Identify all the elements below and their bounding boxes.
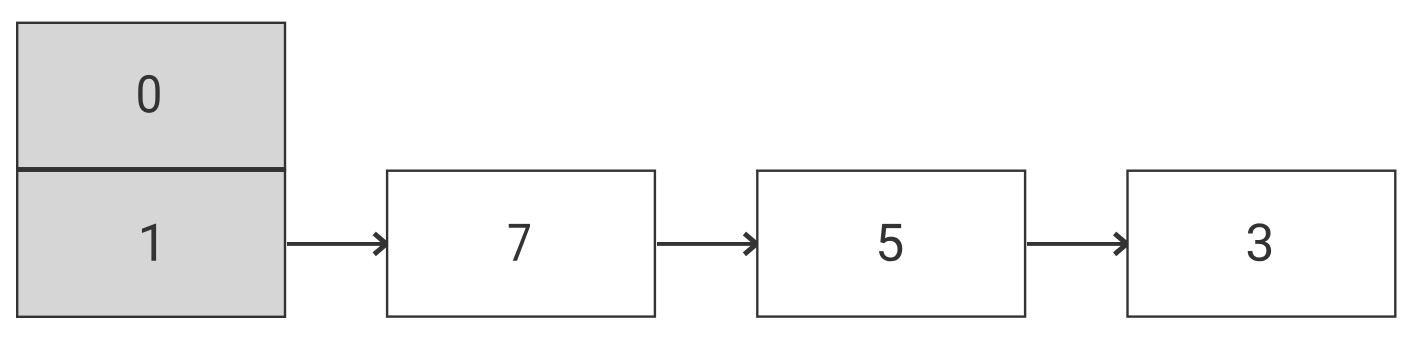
- digit 7 label: [509, 224, 530, 261]
- list node box 5: [757, 171, 1025, 317]
- arrow node 5 to node 3: open-vee arrowhead: [1115, 234, 1127, 255]
- digit 0 label: [138, 75, 159, 113]
- arrow node 7 to node 5: open-vee arrowhead: [744, 234, 756, 255]
- digit 5 label: [879, 224, 902, 261]
- bucket array cell 0 (gray): [17, 23, 285, 169]
- list node box 7: [387, 171, 655, 317]
- divider line between cell 0 and cell 1: [16, 167, 286, 172]
- list node box 3: [1128, 171, 1396, 317]
- bucket array cell 1 (gray): [17, 171, 285, 317]
- digit 3 label: [1248, 223, 1271, 261]
- arrow node 5 to node 3: shaft: [1027, 242, 1124, 246]
- digit 1 label: [142, 224, 156, 261]
- arrow bucket 1 to node 7: shaft: [287, 242, 384, 246]
- arrow bucket 1 to node 7: open-vee arrowhead: [374, 234, 386, 255]
- arrow node 7 to node 5: shaft: [657, 242, 754, 246]
